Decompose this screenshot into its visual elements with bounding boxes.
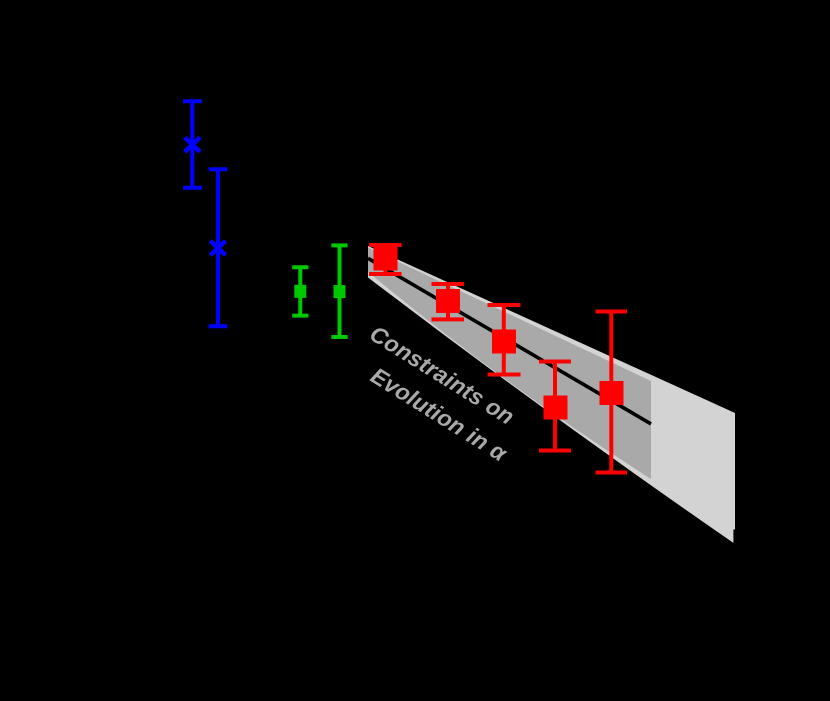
green point 2 error bar [331,245,347,337]
light gray 2-sigma wedge [368,246,735,544]
blue point 2 X marker [210,241,225,255]
blue point 1 error bar [183,101,202,188]
blue point 2 error bar [209,169,228,326]
red point 3 error bar [488,305,521,375]
red point 2 error bar [432,284,465,319]
red point 5 error bar [596,312,628,473]
black notch on wedge right edge [733,530,736,546]
green point 2 square marker [334,285,346,298]
red point 4 square marker [544,396,568,420]
green point 1 square marker [294,285,306,298]
dark gray 1-sigma band [368,248,651,480]
best-fit line [368,258,651,424]
blue point 1 X marker [185,137,200,151]
red point 5 square marker [600,381,624,405]
green point 1 error bar [292,267,308,315]
red point 1 error bar [369,245,402,274]
red point 1 square marker [374,247,398,271]
red point 4 error bar [539,362,571,451]
red point 3 square marker [492,330,516,354]
red point 2 square marker [436,289,460,313]
